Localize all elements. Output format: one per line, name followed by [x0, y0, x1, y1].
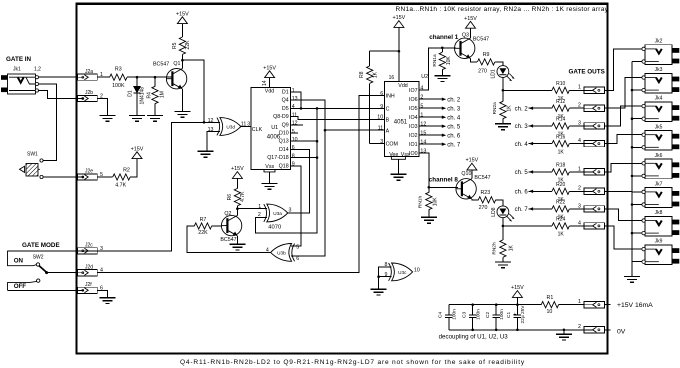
svg-text:C: C: [386, 107, 390, 113]
svg-text:J2b: J2b: [85, 90, 93, 96]
jack Jk8 (output): [642, 210, 679, 236]
junction: [471, 303, 474, 306]
svg-text:8: 8: [292, 153, 295, 159]
resistor R6 4.7K: [227, 178, 246, 208]
wire R1 to +15V connector: [559, 304, 584, 306]
svg-text:channel 8: channel 8: [429, 176, 459, 183]
wire ch. 3 to R14: [529, 125, 552, 127]
svg-text:RN2a: RN2a: [492, 102, 498, 115]
svg-text:16: 16: [389, 75, 395, 81]
junction: [316, 156, 319, 159]
svg-text:R10: R10: [556, 81, 565, 87]
ground under Q2: [229, 244, 245, 250]
wire: [632, 118, 642, 120]
wire U1 D5 row to U2 C: [291, 107, 385, 109]
svg-text:Q4-R11-RN1b-RN2b-LD2 to Q9-R21: Q4-R11-RN1b-RN2b-LD2 to Q9-R21-RN1g-RN2g…: [180, 359, 525, 366]
svg-text:2: 2: [578, 103, 581, 109]
svg-text:Q17-D18: Q17-D18: [267, 155, 289, 161]
board-edge connector pin 4: [578, 220, 605, 229]
svg-text:ch. 4: ch. 4: [447, 116, 461, 122]
ground under R4: [147, 116, 163, 122]
junction: [631, 117, 634, 120]
wire: [369, 83, 371, 143]
svg-text:1K: 1K: [558, 149, 565, 155]
svg-text:1: 1: [578, 85, 581, 91]
junction: [300, 107, 303, 110]
svg-text:Jk7: Jk7: [655, 182, 663, 188]
wire ch. 4 to R16: [529, 143, 552, 145]
svg-text:IO7: IO7: [409, 88, 418, 94]
wire: [502, 90, 504, 101]
jack Jk4 (output): [642, 96, 679, 122]
junction: [495, 329, 498, 332]
wire J2f to ground: [97, 290, 107, 298]
jack Jk1 (gate input): [1, 67, 41, 95]
svg-text:ch. 7: ch. 7: [447, 143, 461, 149]
svg-text:ch. 3: ch. 3: [447, 107, 461, 113]
wire Q3 emitter to R9: [471, 59, 478, 62]
wire U1 Q17-D18 to feedback node: [291, 157, 317, 159]
resistor R16 1K: [552, 134, 569, 155]
svg-text:GATE IN: GATE IN: [6, 56, 32, 63]
wire: [419, 134, 442, 136]
svg-text:RN2h: RN2h: [492, 242, 498, 255]
wire: [632, 232, 642, 234]
wire to U3a pin 1: [237, 208, 267, 210]
resistor R22 1K: [552, 200, 569, 221]
svg-text:1: 1: [258, 204, 261, 210]
wire Q1 collector: [181, 60, 183, 68]
svg-text:100n: 100n: [475, 309, 481, 320]
junction: [516, 329, 519, 332]
resistor R9 270: [477, 52, 494, 74]
wire J2e to R2: [97, 176, 112, 178]
svg-text:R5: R5: [172, 42, 178, 49]
junction: [181, 59, 184, 62]
resistor R3 100K: [110, 67, 127, 89]
svg-text:ON: ON: [14, 258, 24, 265]
wire: [154, 77, 156, 86]
wire Q10 collector to +15V: [471, 170, 473, 179]
wire channel 8 node to R24: [503, 225, 552, 227]
svg-text:22K: 22K: [198, 230, 208, 236]
svg-text:3: 3: [247, 122, 250, 128]
svg-text:14: 14: [420, 140, 426, 146]
svg-text:Q18: Q18: [279, 163, 289, 169]
svg-text:5: 5: [292, 129, 295, 135]
wire feedback to U3a pin 2: [255, 108, 317, 232]
IC U1 4006 shift register: [251, 87, 291, 169]
svg-text:Vee: Vee: [389, 152, 398, 158]
wire: [154, 104, 156, 116]
svg-text:100n: 100n: [452, 309, 458, 320]
svg-text:4: 4: [266, 247, 269, 253]
wire: [632, 89, 642, 91]
wire: [441, 70, 443, 76]
svg-text:Q4: Q4: [282, 98, 289, 104]
wire R7 to Q2 base: [212, 225, 221, 227]
svg-text:13: 13: [292, 96, 298, 102]
svg-text:1M: 1M: [160, 91, 166, 98]
junction: [495, 303, 498, 306]
wire: [472, 318, 474, 330]
svg-text:1: 1: [292, 88, 295, 94]
svg-text:ch. 5: ch. 5: [515, 170, 529, 176]
wire U3c pin 9: [379, 276, 392, 278]
wire R20 to connector: [569, 190, 584, 192]
wire J2d / gate mode to U2 INH: [97, 95, 384, 272]
svg-text:13: 13: [208, 127, 214, 133]
wire SW2 common to J2d: [47, 272, 78, 274]
connector J2d pin 4: [78, 264, 103, 275]
svg-text:Q8-D9: Q8-D9: [273, 114, 289, 120]
wire U3c pin 8 to ground: [379, 267, 392, 289]
+15V supply for U1: [263, 65, 276, 77]
svg-text:10K: 10K: [433, 197, 439, 207]
svg-text:Jk9: Jk9: [655, 239, 663, 245]
resistor RN1a 10K: [432, 48, 452, 76]
U1 Vss pin 7 to ground: [264, 170, 275, 184]
board-edge connector pin 1: [578, 299, 605, 308]
svg-text:2: 2: [578, 186, 581, 192]
wire: [181, 24, 183, 37]
junction: [563, 329, 566, 332]
svg-text:LD8: LD8: [491, 207, 497, 216]
board-edge connector pin 4: [578, 138, 605, 147]
ground under Q1: [174, 112, 190, 118]
board-edge connector pin 2: [578, 324, 605, 333]
svg-text:ch. 3: ch. 3: [515, 124, 529, 130]
ground under U3d: [198, 151, 214, 157]
connector J2e pin 5: [78, 169, 103, 180]
svg-text:1K: 1K: [372, 71, 378, 78]
wire J2a to R3: [97, 76, 110, 78]
resistor R23 270: [478, 190, 495, 211]
ground under U1: [262, 184, 278, 190]
resistor R20 1K: [552, 182, 569, 203]
svg-text:22µ 25V: 22µ 25V: [520, 305, 526, 324]
svg-text:Jk3: Jk3: [655, 67, 663, 73]
svg-text:1K: 1K: [558, 232, 565, 238]
svg-text:ch. 6: ch. 6: [515, 190, 529, 196]
board-edge connector pin 1: [578, 166, 605, 175]
svg-text:IO4: IO4: [409, 115, 418, 121]
wire U1 Q9 stub: [291, 124, 303, 126]
svg-text:+15V: +15V: [466, 158, 479, 164]
wire U1 D1 tie to D5: [291, 92, 301, 108]
wire: [236, 178, 238, 188]
wire R9 to LD1: [495, 62, 503, 66]
capacitor C3 100n: [461, 305, 481, 330]
wire: [419, 107, 442, 109]
wire LD1 to channel 1 node: [502, 77, 504, 90]
svg-text:4070: 4070: [268, 224, 281, 230]
junction: [516, 303, 519, 306]
svg-text:270: 270: [478, 68, 487, 74]
jack Jk6 (output): [642, 153, 679, 179]
wire: [419, 116, 442, 118]
svg-text:4: 4: [578, 220, 581, 226]
+15V supply for R2: [131, 146, 144, 158]
svg-text:4: 4: [578, 138, 581, 144]
resistor RN1h 10K: [418, 187, 439, 217]
wire: [441, 48, 443, 52]
svg-text:IO5: IO5: [409, 106, 418, 112]
wire R16 to connector: [569, 143, 584, 145]
junction: [502, 89, 505, 92]
ground under RN2a: [495, 124, 511, 130]
svg-text:U3a: U3a: [273, 211, 282, 216]
svg-text:+15V: +15V: [464, 16, 477, 22]
svg-text:COM: COM: [386, 142, 398, 148]
svg-text:RN1a...RN1h : 10K resistor arr: RN1a...RN1h : 10K resistor array, RN2a .…: [396, 6, 609, 13]
svg-text:IO0: IO0: [409, 151, 418, 157]
wire U1 D10 stub: [291, 132, 298, 134]
svg-text:4.7K: 4.7K: [240, 191, 246, 202]
svg-text:270: 270: [479, 205, 488, 211]
wire +15V to rail: [516, 297, 518, 304]
svg-text:R18: R18: [556, 163, 565, 169]
board-edge connector pin 2: [578, 186, 605, 195]
svg-text:1: 1: [578, 299, 581, 305]
junction: [502, 225, 505, 228]
wire U3b out to R7: [187, 226, 271, 252]
junction: [324, 129, 327, 132]
capacitor C1 22µ 25V: [506, 305, 526, 330]
wire U2 IO7 to channel 1: [419, 48, 456, 90]
wire: [448, 318, 450, 330]
svg-text:Jk5: Jk5: [655, 124, 663, 130]
wire: [136, 77, 138, 86]
svg-text:R9: R9: [483, 52, 490, 58]
svg-text:U1: U1: [271, 125, 278, 131]
wire: [632, 175, 642, 177]
IC U2 4051 analog multiplexer: [384, 82, 419, 157]
wire: [495, 318, 497, 330]
wire: [397, 159, 399, 174]
svg-text:2: 2: [578, 324, 581, 330]
resistor R18 1K: [552, 163, 569, 184]
svg-text:12: 12: [292, 121, 298, 127]
wire connector row 8 to jack: [605, 226, 642, 249]
svg-text:BC547: BC547: [473, 36, 489, 42]
svg-text:D10: D10: [279, 131, 289, 137]
+15V supply for U2: [393, 15, 406, 27]
svg-text:GATE OUTS: GATE OUTS: [569, 68, 605, 75]
wire +15V tail: [605, 304, 611, 306]
svg-text:6: 6: [380, 91, 383, 97]
svg-text:R1: R1: [547, 295, 554, 301]
ground under J2f: [100, 298, 116, 304]
junction: [631, 175, 634, 178]
wire R14 to connector: [569, 125, 584, 127]
svg-text:U3d: U3d: [226, 125, 235, 130]
svg-text:Q10: Q10: [461, 171, 471, 177]
wire: [369, 51, 371, 66]
wire LD8 to channel 8 node: [502, 218, 504, 226]
diode D1 1N4148: [128, 77, 146, 115]
wire U1 Q8-D9 to U2 B: [291, 117, 385, 120]
svg-text:D5: D5: [282, 106, 289, 112]
jack Jk2 (output): [642, 39, 679, 65]
wire channel 1 node to R10: [503, 89, 552, 91]
svg-text:D1: D1: [282, 90, 289, 96]
wire U3a out to U1 D14: [288, 149, 310, 213]
junction: [631, 203, 634, 206]
junction: [377, 275, 380, 278]
LED LD8: [497, 206, 514, 222]
wire U3d out to U1 CLK: [241, 126, 251, 128]
svg-text:J2e: J2e: [85, 169, 93, 175]
wire +15V to U2 Vdd pin 16: [398, 27, 400, 81]
junction: [136, 76, 139, 79]
svg-text:Jk2: Jk2: [655, 39, 663, 45]
svg-text:GATE MODE: GATE MODE: [22, 242, 60, 249]
connector J2f pin 6: [78, 282, 103, 293]
resistor R8 1K: [359, 51, 378, 143]
svg-text:R23: R23: [480, 190, 490, 196]
svg-text:Vdd: Vdd: [265, 89, 274, 95]
ground jack ground: [624, 277, 640, 283]
svg-text:CLK: CLK: [252, 127, 263, 133]
wire 0V tail: [605, 329, 611, 331]
svg-text:ch. 4: ch. 4: [515, 142, 529, 148]
svg-text:10: 10: [292, 137, 298, 143]
svg-text:4: 4: [292, 104, 295, 110]
wire R8 to U2 COM: [370, 142, 385, 144]
wire ch. 2 to R12: [529, 107, 552, 109]
wire connector row 1 to jack: [605, 49, 642, 90]
junction: [631, 89, 634, 92]
wire Q2 collector: [236, 209, 238, 216]
+15V supply for R6: [231, 166, 244, 178]
svg-text:J2c: J2c: [85, 243, 93, 249]
svg-text:R6: R6: [227, 194, 233, 201]
transistor Q10 BC547 NPN: [456, 179, 477, 199]
wire: [428, 187, 430, 192]
wire: [419, 125, 442, 127]
svg-text:+15V: +15V: [263, 65, 276, 71]
connector J2b pin 2: [78, 90, 103, 101]
svg-text:11: 11: [292, 112, 298, 118]
svg-text:B: B: [386, 117, 390, 123]
wire R23 to LD8: [496, 200, 503, 206]
resistor R14 1K: [552, 117, 569, 138]
wire: [136, 93, 138, 115]
svg-text:Jk4: Jk4: [655, 96, 663, 102]
jack Jk9 (output): [642, 239, 679, 265]
svg-text:+15V: +15V: [393, 15, 406, 21]
wire Jk1 tip to J2a: [39, 76, 78, 78]
svg-text:Vss: Vss: [265, 164, 274, 170]
svg-text:Q3: Q3: [462, 32, 469, 38]
wire ch. 7 to R22: [529, 208, 552, 210]
wire: [516, 305, 518, 315]
wire R12 to connector: [569, 107, 584, 109]
svg-text:3: 3: [380, 139, 383, 145]
svg-text:3: 3: [578, 120, 581, 126]
wire Jk1 switch to SW1: [39, 84, 57, 161]
wire: [495, 305, 497, 315]
op gate U3a (XOR, 4070): [264, 204, 288, 222]
junction: [631, 146, 634, 149]
svg-text:IO1: IO1: [409, 142, 418, 148]
svg-text:6: 6: [296, 256, 299, 262]
svg-text:2: 2: [258, 212, 261, 218]
ground under RN1h: [421, 217, 437, 223]
svg-text:ch. 7: ch. 7: [515, 207, 529, 213]
wire R8 top to +15V rail: [370, 50, 399, 52]
resistor R5 22K: [172, 24, 191, 61]
wire Q10 emitter to R23: [472, 198, 478, 201]
wire connector row 3 to jack: [605, 106, 642, 126]
LED LD1: [497, 66, 514, 82]
svg-text:3: 3: [289, 207, 292, 213]
svg-text:10: 10: [546, 309, 552, 315]
resistor R4 1M: [147, 77, 166, 115]
wire connector row 4 to jack: [605, 135, 642, 144]
wire: [269, 78, 271, 88]
svg-text:RN1a: RN1a: [432, 54, 438, 67]
wire: [428, 210, 430, 218]
wire Jk1 sleeve to J2b: [39, 91, 78, 99]
svg-text:10: 10: [377, 115, 383, 121]
transistor Q2 BC547 NPN: [221, 215, 242, 235]
capacitor C2 100n: [485, 305, 505, 330]
svg-text:C1: C1: [506, 312, 512, 318]
board-edge connector pin 2: [578, 103, 605, 112]
resistor R10 1K: [552, 81, 569, 102]
switch SW1 (push button): [20, 152, 44, 179]
wire: [502, 257, 504, 262]
jack Jk7 (output): [642, 182, 679, 208]
junction: [441, 47, 444, 50]
wire: [502, 119, 504, 124]
svg-text:ch. 5: ch. 5: [447, 125, 461, 131]
junction: [316, 140, 319, 143]
wire J2b to ground: [97, 99, 107, 116]
wire Q4 net to U2 A: [325, 129, 384, 131]
svg-text:11: 11: [241, 122, 247, 128]
svg-text:U2: U2: [421, 74, 428, 80]
junction: [631, 232, 634, 235]
board-edge connector pin 1: [578, 85, 605, 94]
svg-text:ch. 6: ch. 6: [447, 134, 461, 140]
svg-text:12: 12: [208, 118, 214, 124]
op gate U3d (XOR, 4070): [217, 118, 241, 136]
svg-text:U3b: U3b: [277, 251, 286, 256]
svg-text:Q1: Q1: [173, 61, 180, 67]
wire: [269, 172, 271, 184]
svg-text:+: +: [513, 312, 516, 318]
svg-text:R7: R7: [200, 217, 207, 223]
svg-text:IO6: IO6: [409, 97, 418, 103]
svg-text:ch. 2: ch. 2: [447, 98, 461, 104]
op gate U3c (XOR, 4070): [389, 263, 413, 281]
svg-text:SW2: SW2: [33, 254, 44, 260]
svg-text:channel 1: channel 1: [429, 34, 459, 41]
wire U1 Q13 to feedback node: [291, 140, 317, 142]
svg-text:+15V: +15V: [231, 166, 244, 172]
wire SW1 to J2e: [43, 176, 78, 178]
svg-text:9: 9: [292, 162, 295, 168]
svg-text:+15V: +15V: [131, 146, 144, 152]
svg-text:1K: 1K: [508, 244, 514, 251]
resistor R12 1K: [552, 99, 569, 120]
wire 0V rail to ground: [563, 330, 565, 335]
wire ch. 5 to R18: [529, 171, 552, 173]
svg-text:C2: C2: [485, 312, 491, 318]
